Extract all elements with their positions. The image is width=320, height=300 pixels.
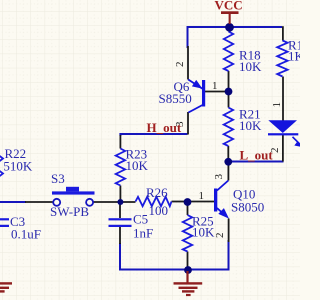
- svg-text:2: 2: [214, 233, 226, 239]
- svg-text:1: 1: [271, 102, 283, 108]
- svg-text:10K: 10K: [192, 225, 215, 240]
- svg-text:S8050: S8050: [231, 200, 264, 215]
- svg-text:10K: 10K: [239, 59, 262, 74]
- svg-text:3: 3: [213, 174, 225, 180]
- svg-text:100: 100: [149, 203, 169, 218]
- svg-text:2: 2: [269, 148, 281, 154]
- svg-text:3: 3: [174, 121, 186, 127]
- svg-text:SW-PB: SW-PB: [50, 204, 89, 219]
- svg-text:1K: 1K: [288, 49, 300, 64]
- svg-text:1: 1: [212, 80, 218, 92]
- svg-text:S8550: S8550: [159, 91, 192, 106]
- svg-text:1nF: 1nF: [133, 226, 153, 241]
- svg-text:R26: R26: [146, 185, 168, 200]
- svg-text:C5: C5: [133, 212, 148, 227]
- svg-text:0.1uF: 0.1uF: [11, 227, 41, 242]
- svg-text:1: 1: [199, 190, 205, 202]
- svg-text:10K: 10K: [126, 158, 149, 173]
- svg-text:510K: 510K: [3, 158, 33, 173]
- svg-text:10K: 10K: [239, 118, 262, 133]
- svg-text:S3: S3: [51, 171, 65, 186]
- svg-text:VCC: VCC: [215, 0, 243, 13]
- svg-text:2: 2: [174, 62, 186, 68]
